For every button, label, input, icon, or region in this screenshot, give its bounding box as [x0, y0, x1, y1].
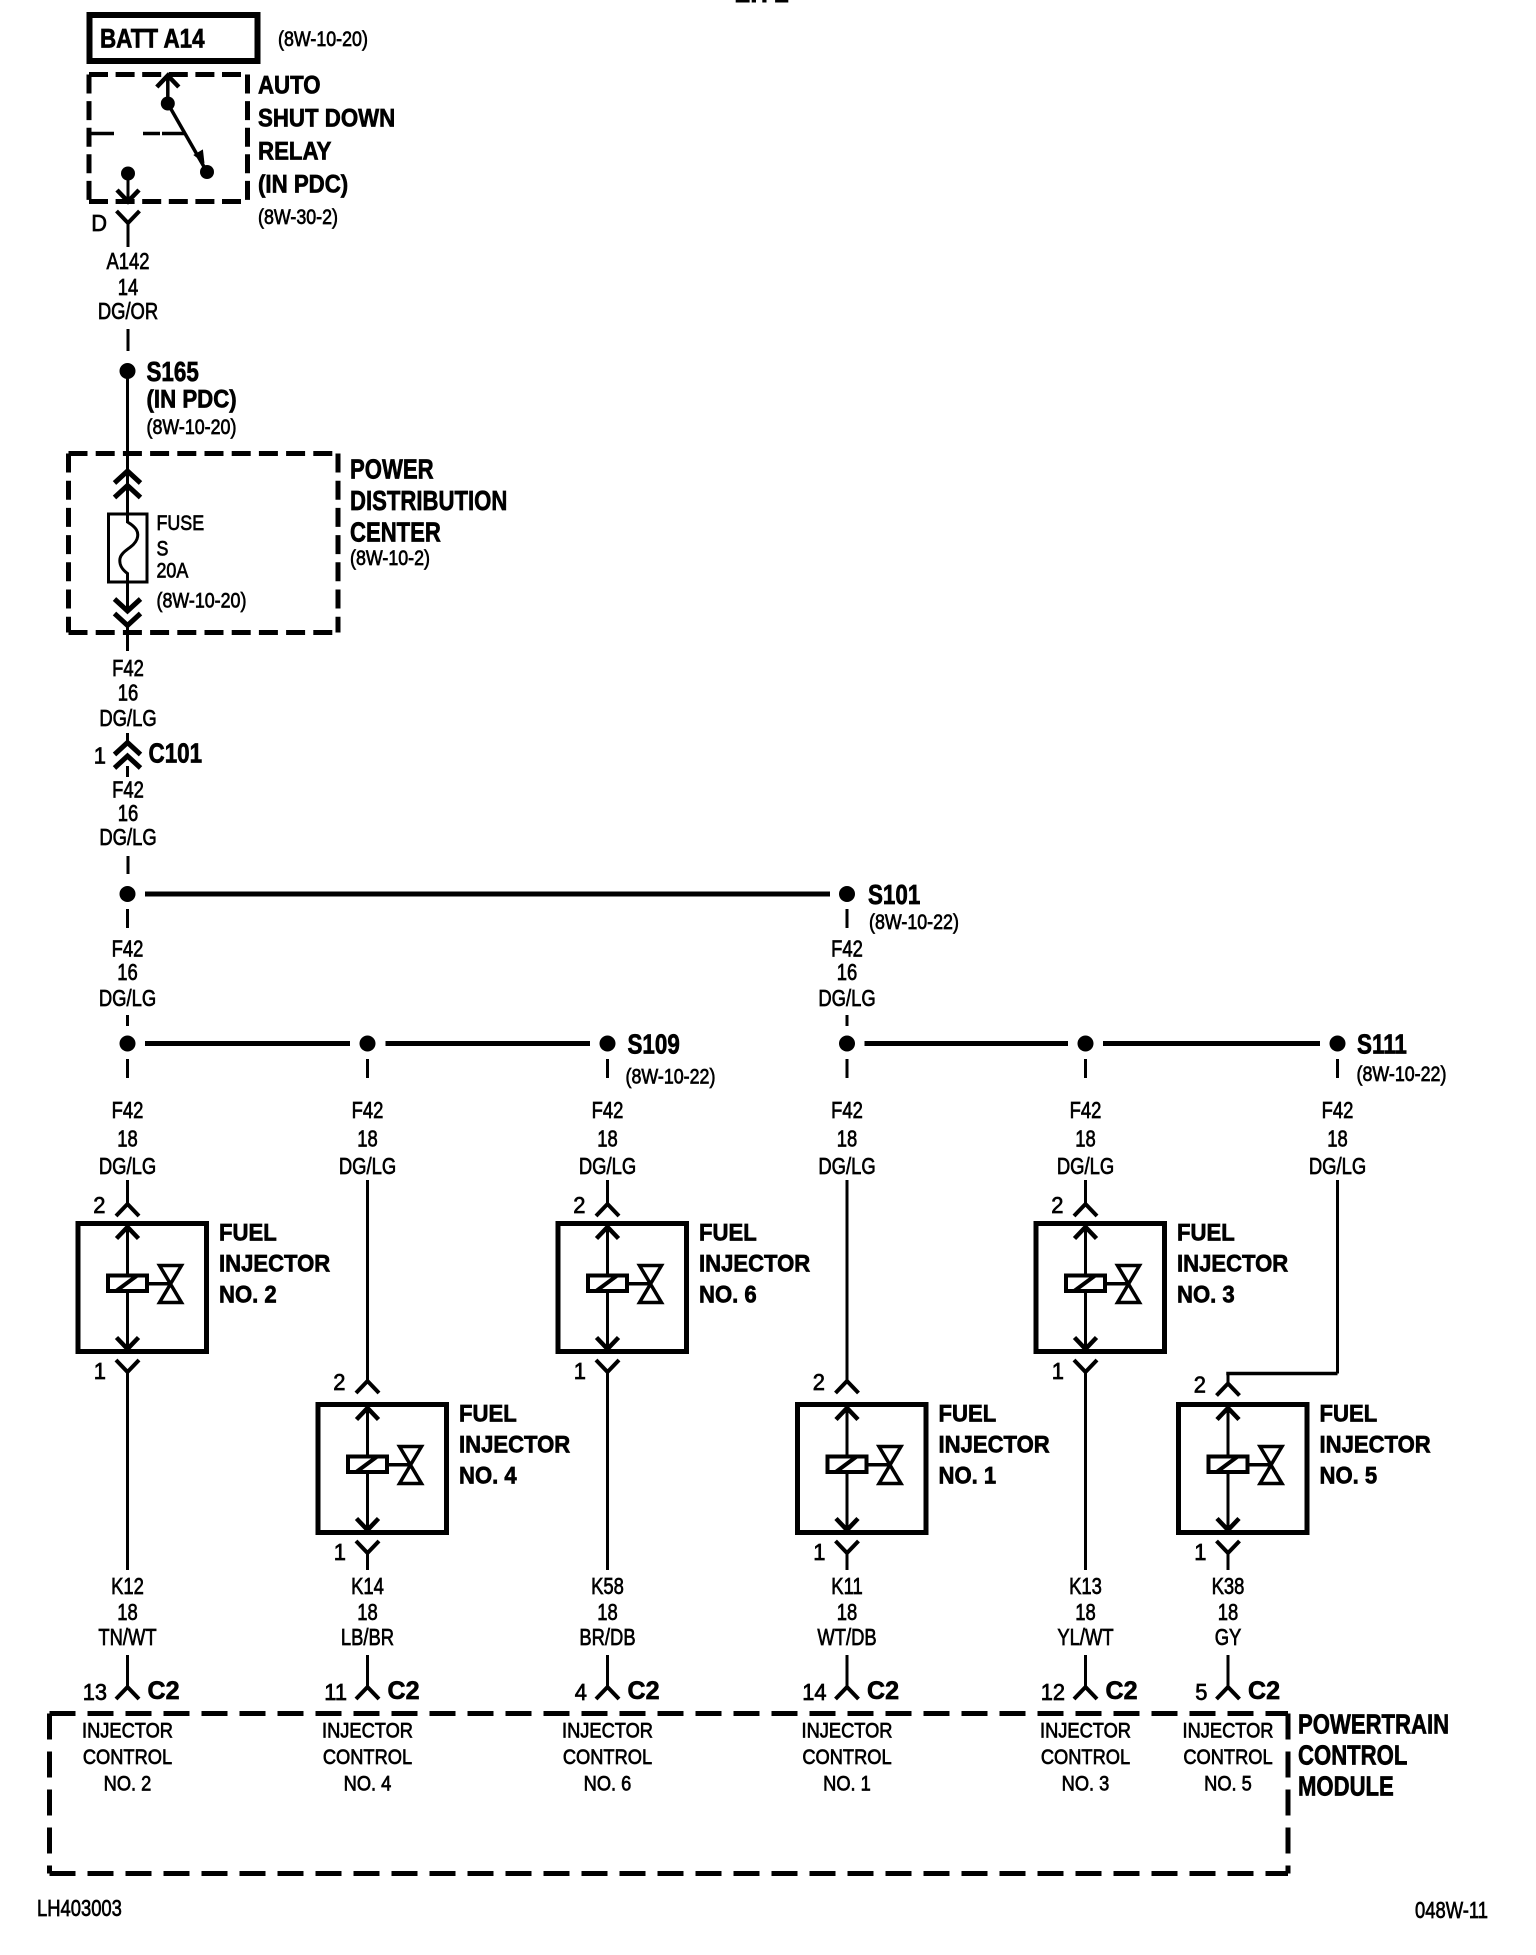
- svg-text:14: 14: [802, 1679, 826, 1705]
- svg-text:CENTER: CENTER: [350, 517, 441, 548]
- svg-text:F42: F42: [831, 1097, 863, 1123]
- svg-text:INJECTOR: INJECTOR: [802, 1720, 893, 1743]
- svg-text:1: 1: [94, 1358, 106, 1384]
- svg-text:F42: F42: [1070, 1097, 1102, 1123]
- svg-text:NO. 4: NO. 4: [459, 1463, 517, 1490]
- svg-text:18: 18: [117, 1599, 138, 1625]
- svg-text:DG/LG: DG/LG: [99, 985, 156, 1011]
- svg-text:(8W-10-22): (8W-10-22): [626, 1066, 716, 1089]
- svg-text:K13: K13: [1069, 1573, 1102, 1599]
- svg-text:(8W-10-22): (8W-10-22): [869, 911, 959, 934]
- svg-text:D: D: [91, 210, 107, 236]
- svg-text:LB/BR: LB/BR: [341, 1624, 394, 1650]
- svg-text:INJECTOR: INJECTOR: [82, 1720, 173, 1743]
- svg-text:K12: K12: [111, 1573, 144, 1599]
- svg-text:S101: S101: [868, 879, 920, 910]
- svg-text:18: 18: [1075, 1599, 1096, 1625]
- svg-text:CONTROL: CONTROL: [323, 1746, 412, 1769]
- svg-text:WT/DB: WT/DB: [817, 1624, 876, 1650]
- svg-text:F42: F42: [112, 777, 144, 803]
- svg-text:14: 14: [118, 274, 139, 300]
- svg-text:(8W-10-20): (8W-10-20): [157, 590, 247, 613]
- svg-text:(IN PDC): (IN PDC): [147, 386, 237, 414]
- svg-text:C101: C101: [149, 738, 203, 769]
- svg-text:C2: C2: [148, 1677, 180, 1705]
- svg-text:FUEL: FUEL: [1177, 1220, 1235, 1247]
- svg-text:11: 11: [324, 1679, 347, 1705]
- svg-text:F42: F42: [112, 936, 144, 962]
- svg-text:18: 18: [837, 1126, 858, 1152]
- svg-text:F42: F42: [112, 655, 144, 681]
- svg-text:1: 1: [94, 743, 106, 769]
- svg-text:2: 2: [813, 1369, 825, 1395]
- svg-text:5: 5: [1195, 1679, 1207, 1705]
- svg-text:S111: S111: [1357, 1029, 1407, 1060]
- svg-text:18: 18: [837, 1599, 858, 1625]
- svg-text:YL/WT: YL/WT: [1057, 1624, 1113, 1650]
- svg-text:20A: 20A: [157, 560, 189, 583]
- svg-text:048W-11: 048W-11: [1415, 1897, 1488, 1923]
- svg-text:INJECTOR: INJECTOR: [562, 1720, 653, 1743]
- svg-text:INJECTOR: INJECTOR: [1320, 1432, 1431, 1459]
- svg-text:DG/LG: DG/LG: [339, 1153, 396, 1179]
- svg-text:CONTROL: CONTROL: [802, 1746, 891, 1769]
- svg-text:12: 12: [1041, 1679, 1065, 1705]
- svg-text:C2: C2: [1248, 1677, 1280, 1705]
- svg-text:F42: F42: [1322, 1097, 1354, 1123]
- svg-text:DG/LG: DG/LG: [99, 824, 156, 850]
- svg-text:C2: C2: [1106, 1677, 1138, 1705]
- svg-text:CONTROL: CONTROL: [1041, 1746, 1130, 1769]
- svg-text:S165: S165: [147, 356, 199, 387]
- svg-text:S109: S109: [628, 1029, 680, 1060]
- svg-text:GY: GY: [1215, 1624, 1242, 1650]
- svg-text:POWER: POWER: [350, 454, 434, 485]
- svg-text:NO. 2: NO. 2: [219, 1282, 277, 1309]
- svg-text:DG/LG: DG/LG: [1057, 1153, 1114, 1179]
- svg-text:(8W-10-20): (8W-10-20): [278, 28, 368, 51]
- svg-text:BR/DB: BR/DB: [579, 1624, 635, 1650]
- svg-text:18: 18: [357, 1126, 378, 1152]
- svg-text:DG/LG: DG/LG: [818, 1153, 875, 1179]
- svg-text:2: 2: [573, 1192, 585, 1218]
- svg-text:FUSE: FUSE: [157, 512, 205, 535]
- svg-text:INJECTOR: INJECTOR: [1177, 1251, 1288, 1278]
- svg-text:FUEL: FUEL: [699, 1220, 757, 1247]
- svg-text:DISTRIBUTION: DISTRIBUTION: [350, 485, 507, 516]
- svg-text:INJECTOR: INJECTOR: [939, 1432, 1050, 1459]
- svg-text:18: 18: [597, 1599, 618, 1625]
- svg-text:INJECTOR: INJECTOR: [699, 1251, 810, 1278]
- svg-text:C2: C2: [388, 1677, 420, 1705]
- svg-text:NO. 5: NO. 5: [1204, 1773, 1252, 1796]
- svg-text:F42: F42: [112, 1097, 144, 1123]
- svg-text:18: 18: [117, 1126, 138, 1152]
- svg-text:TN/WT: TN/WT: [98, 1624, 156, 1650]
- svg-text:NO. 5: NO. 5: [1320, 1463, 1378, 1490]
- svg-text:LH403003: LH403003: [37, 1895, 122, 1921]
- svg-text:CONTROL: CONTROL: [83, 1746, 172, 1769]
- svg-text:2: 2: [333, 1369, 345, 1395]
- svg-text:(8W-10-22): (8W-10-22): [1357, 1063, 1447, 1086]
- svg-text:C2: C2: [867, 1677, 899, 1705]
- svg-text:DG/OR: DG/OR: [98, 298, 158, 324]
- svg-text:4: 4: [575, 1679, 587, 1705]
- svg-text:RELAY: RELAY: [258, 138, 332, 166]
- svg-text:16: 16: [117, 959, 138, 985]
- svg-text:18: 18: [597, 1126, 618, 1152]
- svg-text:1: 1: [1194, 1539, 1206, 1565]
- svg-text:2: 2: [93, 1192, 105, 1218]
- svg-text:DG/LG: DG/LG: [818, 985, 875, 1011]
- svg-text:NO. 3: NO. 3: [1062, 1773, 1110, 1796]
- svg-text:NO. 2: NO. 2: [104, 1773, 152, 1796]
- svg-text:13: 13: [83, 1679, 107, 1705]
- svg-text:F42: F42: [592, 1097, 624, 1123]
- svg-text:MODULE: MODULE: [1298, 1771, 1394, 1802]
- svg-text:NO. 6: NO. 6: [584, 1773, 632, 1796]
- svg-text:CONTROL: CONTROL: [1183, 1746, 1272, 1769]
- svg-text:INJECTOR: INJECTOR: [1040, 1720, 1131, 1743]
- svg-text:A142: A142: [107, 248, 150, 274]
- svg-text:16: 16: [118, 680, 139, 706]
- svg-text:1: 1: [1052, 1358, 1064, 1384]
- svg-text:BATT A14: BATT A14: [100, 24, 205, 54]
- svg-text:S: S: [157, 538, 169, 561]
- svg-text:18: 18: [1075, 1126, 1096, 1152]
- svg-text:18: 18: [1218, 1599, 1239, 1625]
- svg-text:FUEL: FUEL: [459, 1401, 517, 1428]
- svg-text:K11: K11: [831, 1573, 862, 1599]
- svg-text:16: 16: [837, 959, 858, 985]
- svg-text:K38: K38: [1212, 1573, 1245, 1599]
- svg-text:(8W-30-2): (8W-30-2): [258, 206, 338, 229]
- svg-text:POWERTRAIN: POWERTRAIN: [1298, 1709, 1449, 1740]
- svg-text:(8W-10-2): (8W-10-2): [350, 547, 430, 570]
- svg-text:DG/LG: DG/LG: [99, 705, 156, 731]
- svg-text:C2: C2: [628, 1677, 660, 1705]
- svg-text:FUEL: FUEL: [219, 1220, 277, 1247]
- svg-text:NO. 1: NO. 1: [939, 1463, 997, 1490]
- svg-text:NO. 1: NO. 1: [823, 1773, 871, 1796]
- svg-text:DG/LG: DG/LG: [1309, 1153, 1366, 1179]
- svg-text:F42: F42: [831, 936, 863, 962]
- svg-text:1: 1: [813, 1539, 825, 1565]
- svg-text:18: 18: [357, 1599, 378, 1625]
- svg-text:(8W-10-20): (8W-10-20): [147, 416, 237, 439]
- svg-text:CONTROL: CONTROL: [563, 1746, 652, 1769]
- svg-text:SHUT DOWN: SHUT DOWN: [258, 105, 395, 133]
- svg-text:2: 2: [1194, 1372, 1206, 1398]
- svg-text:(IN PDC): (IN PDC): [258, 171, 348, 199]
- svg-text:FUEL: FUEL: [939, 1401, 997, 1428]
- svg-text:NO. 3: NO. 3: [1177, 1282, 1235, 1309]
- svg-text:F42: F42: [352, 1097, 384, 1123]
- svg-text:2: 2: [1051, 1192, 1063, 1218]
- svg-text:18: 18: [1327, 1126, 1348, 1152]
- svg-text:INJECTOR: INJECTOR: [322, 1720, 413, 1743]
- svg-text:DG/LG: DG/LG: [99, 1153, 156, 1179]
- svg-text:AUTO: AUTO: [258, 72, 321, 100]
- svg-text:FUEL: FUEL: [1320, 1401, 1378, 1428]
- svg-text:1: 1: [334, 1539, 346, 1565]
- svg-text:INJECTOR: INJECTOR: [459, 1432, 570, 1459]
- svg-text:NO. 6: NO. 6: [699, 1282, 757, 1309]
- svg-text:INJECTOR: INJECTOR: [219, 1251, 330, 1278]
- svg-text:16: 16: [118, 800, 139, 826]
- svg-text:K58: K58: [591, 1573, 624, 1599]
- svg-text:CONTROL: CONTROL: [1298, 1740, 1407, 1771]
- svg-text:INJECTOR: INJECTOR: [1183, 1720, 1274, 1743]
- svg-text:NO. 4: NO. 4: [344, 1773, 392, 1796]
- svg-text:DG/LG: DG/LG: [579, 1153, 636, 1179]
- svg-text:K14: K14: [351, 1573, 384, 1599]
- svg-text:1: 1: [574, 1358, 586, 1384]
